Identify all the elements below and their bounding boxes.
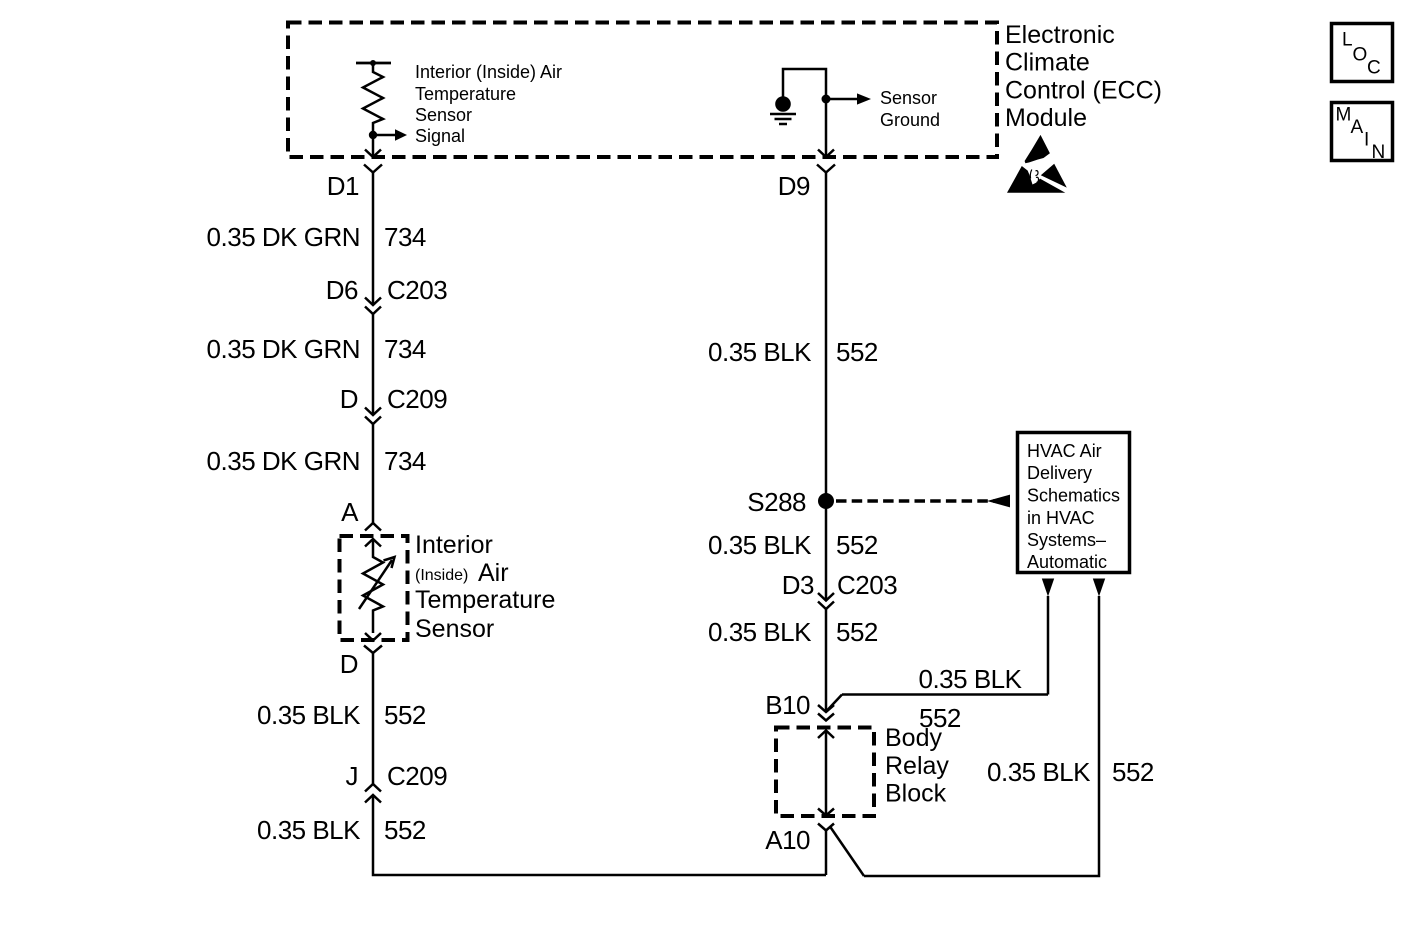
terminal B10 connector (arrow + chevron) [765, 690, 834, 721]
HVAC branch arrow right (from note box) [1093, 579, 1105, 597]
label: 0.35 BLK 552 (branch B10) [919, 664, 1023, 733]
svg-text:Sensor: Sensor [415, 105, 472, 125]
svg-text:C209: C209 [387, 761, 447, 791]
svg-text:0.35 BLK: 0.35 BLK [919, 664, 1023, 694]
wire: C203 down to B10 [825, 609, 828, 712]
svg-text:D9: D9 [778, 171, 810, 201]
pin A connector (chevron + label) [341, 497, 381, 531]
label: 0.35 BLK 552 (right branch) [987, 757, 1154, 787]
svg-text:0.35 BLK: 0.35 BLK [708, 530, 812, 560]
label: 0.35 DK GRN 734 [207, 446, 426, 476]
wire: D down to C209 [372, 653, 375, 784]
connector C203 pin D6 (arrow + chevron) [326, 275, 447, 314]
svg-text:Sensor: Sensor [880, 88, 937, 108]
ECC module dashed box [288, 23, 997, 158]
svg-text:Temperature: Temperature [415, 84, 516, 104]
LOC box [1332, 24, 1393, 82]
svg-text:Schematics: Schematics [1027, 486, 1120, 506]
node: sensor signal tap (junction dot + arrow) [369, 129, 407, 140]
svg-text:in HVAC: in HVAC [1027, 508, 1095, 528]
label: 0.35 BLK 552 [708, 337, 878, 367]
svg-text:B10: B10 [765, 690, 810, 720]
thermistor sensor element (top, inside ECC box) [356, 60, 391, 131]
pin D9 connector (female chevron) [778, 165, 835, 202]
wire through Body Relay Block (up arrow, line, down arrow) [818, 731, 834, 816]
label: 0.35 BLK 552 (middle, above C203 D3) [708, 530, 878, 560]
svg-text:I: I [1364, 130, 1369, 151]
pin D connector (female chevron) [340, 646, 382, 680]
svg-text:C: C [1367, 58, 1381, 79]
svg-text:A: A [341, 497, 359, 527]
label: 0.35 BLK 552 [257, 700, 426, 730]
connector C209 pin D (arrow + chevron) [340, 384, 447, 424]
Interior Air Temperature Sensor dashed box [340, 536, 408, 640]
svg-text:552: 552 [384, 700, 426, 730]
thermistor element inside sensor box (arrows + zigzag) [359, 539, 395, 641]
label: 0.35 BLK 552 [257, 815, 426, 845]
svg-text:C203: C203 [837, 570, 897, 600]
svg-text:S288: S288 [747, 487, 806, 517]
svg-text:Relay: Relay [885, 752, 949, 780]
svg-text:Sensor: Sensor [415, 615, 494, 643]
svg-text:0.35 BLK: 0.35 BLK [708, 337, 812, 367]
ESD warning symbol [1007, 135, 1067, 193]
svg-text:0.35 BLK: 0.35 BLK [257, 815, 361, 845]
svg-text:Block: Block [885, 780, 947, 808]
wire: D1 to C203 segment [372, 173, 375, 306]
svg-text:Automatic: Automatic [1027, 552, 1107, 572]
svg-text:Interior: Interior [415, 531, 493, 559]
wire: ground loop over to D9 with arrowhead [783, 69, 834, 157]
svg-text:Delivery: Delivery [1027, 463, 1092, 483]
svg-text:Module: Module [1005, 104, 1087, 132]
svg-text:Interior (Inside) Air: Interior (Inside) Air [415, 62, 562, 82]
svg-text:Temperature: Temperature [415, 586, 555, 614]
svg-text:J: J [346, 761, 359, 791]
svg-text:Climate: Climate [1005, 49, 1090, 77]
label: Body Relay Block [885, 724, 949, 808]
pin D1 connector (female chevron) [327, 165, 382, 202]
svg-text:Control (ECC): Control (ECC) [1005, 77, 1162, 105]
wire: J down and across the bottom to A10 leg [373, 795, 826, 875]
svg-text:D3: D3 [782, 570, 814, 600]
wire: D9 to S288 and down to C203 [825, 173, 828, 601]
connector C209 pin J (chevron + up arrow) [346, 761, 448, 803]
svg-text:734: 734 [384, 222, 426, 252]
label: Interior (Inside) Air Temperature Sensor [415, 531, 555, 643]
svg-text:D6: D6 [326, 275, 358, 305]
wire: signal down to pin D1 with arrowhead [365, 131, 381, 157]
wire: A10 down to bottom run [825, 831, 828, 876]
label: 0.35 DK GRN 734 [207, 334, 426, 364]
svg-text:552: 552 [836, 617, 878, 647]
wire: right run bottom horizontal and up to HVAC branch arrow right [864, 596, 1099, 876]
svg-text:Air: Air [478, 559, 509, 587]
svg-text:D1: D1 [327, 171, 359, 201]
label: 0.35 BLK 552 [708, 617, 878, 647]
svg-text:0.35 DK GRN: 0.35 DK GRN [207, 446, 360, 476]
node: sensor ground tap (junction dot + arrow) [822, 93, 872, 104]
wire: A10 diagonal branch to right run [830, 827, 864, 877]
svg-text:C203: C203 [387, 275, 447, 305]
svg-text:552: 552 [836, 337, 878, 367]
svg-text:A10: A10 [765, 825, 810, 855]
label: 0.35 DK GRN 734 [207, 222, 426, 252]
svg-text:0.35 BLK: 0.35 BLK [708, 617, 812, 647]
svg-text:0.35 BLK: 0.35 BLK [257, 700, 361, 730]
svg-text:0.35 BLK: 0.35 BLK [987, 757, 1091, 787]
svg-text:Electronic: Electronic [1005, 21, 1115, 49]
wire: C209 down to sensor pin A [372, 424, 375, 523]
svg-text:734: 734 [384, 334, 426, 364]
Body Relay Block dashed box [776, 728, 874, 817]
ECC module name label [1005, 21, 1162, 132]
svg-text:(Inside): (Inside) [415, 567, 468, 584]
svg-text:0.35 DK GRN: 0.35 DK GRN [207, 334, 360, 364]
svg-text:M: M [1336, 105, 1352, 126]
svg-text:0.35 DK GRN: 0.35 DK GRN [207, 222, 360, 252]
terminal A10 connector (female chevron) [765, 824, 834, 856]
svg-text:N: N [1372, 142, 1386, 163]
svg-text:D: D [340, 649, 358, 679]
label: Sensor Ground [880, 88, 940, 130]
dashed reference tie from S288 to HVAC note box [836, 495, 1010, 508]
svg-text:HVAC Air: HVAC Air [1027, 441, 1102, 461]
svg-text:O: O [1353, 45, 1368, 66]
ground symbol inside ECC module [770, 96, 796, 124]
svg-text:Signal: Signal [415, 126, 465, 146]
svg-text:A: A [1351, 117, 1364, 138]
connector C203 pin D3 (arrow + chevron) [782, 570, 897, 609]
svg-text:552: 552 [1112, 757, 1154, 787]
svg-text:Body: Body [885, 724, 942, 752]
splice node S288 [747, 487, 834, 517]
svg-text:Ground: Ground [880, 110, 940, 130]
HVAC note box [1018, 433, 1130, 573]
svg-text:D: D [340, 384, 358, 414]
MAIN box [1332, 103, 1393, 164]
svg-text:C209: C209 [387, 384, 447, 414]
svg-text:Systems–: Systems– [1027, 530, 1106, 550]
HVAC branch arrow left (from note box) [1042, 579, 1054, 695]
wire: HVAC branch to B10 (horizontal + diagonal) [828, 695, 1049, 711]
svg-text:552: 552 [836, 530, 878, 560]
wire: C203 to C209 segment [372, 314, 375, 415]
svg-text:734: 734 [384, 446, 426, 476]
svg-text:L: L [1342, 30, 1353, 51]
label: Interior (Inside) Air Temperature Sensor Signal [415, 62, 562, 146]
svg-text:552: 552 [384, 815, 426, 845]
